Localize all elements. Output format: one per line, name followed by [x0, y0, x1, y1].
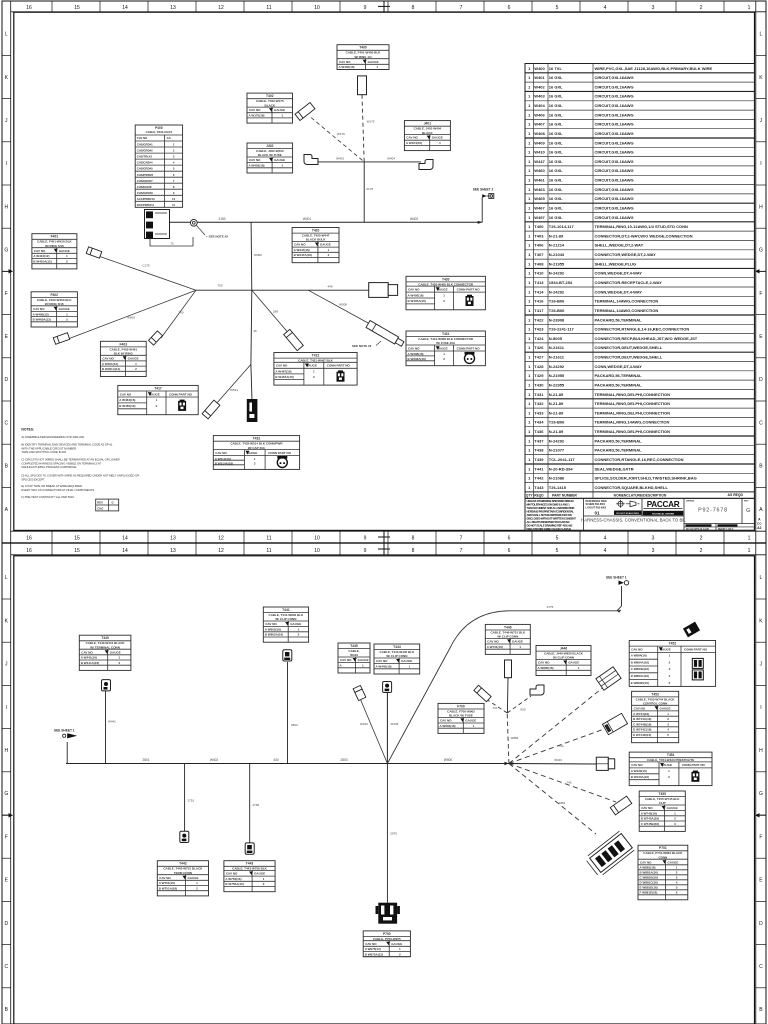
connector table T402 — [247, 93, 293, 123]
svg-text:CAV NO: CAV NO — [33, 307, 45, 311]
svg-text:CAV NO: CAV NO — [406, 136, 418, 140]
svg-text:W900: W900 — [444, 758, 453, 762]
svg-text:CONN PART NO: CONN PART NO — [457, 287, 481, 291]
svg-text:T430: T430 — [442, 277, 450, 281]
dropper wire W300 — [250, 222, 253, 290]
svg-text:L: L — [760, 32, 763, 38]
svg-text:B W884A(16): B W884A(16) — [631, 660, 649, 664]
svg-text:W403: W403 — [534, 94, 545, 99]
connector T405 parallelogram — [86, 247, 102, 258]
dashed branch to T446 — [486, 699, 507, 713]
svg-text:T454: T454 — [667, 753, 675, 757]
svg-text:T26-1014-117: T26-1014-117 — [549, 224, 575, 229]
svg-text:T437: T437 — [534, 438, 544, 443]
svg-text:16 GXL: 16 GXL — [549, 178, 563, 183]
connector table T444 — [374, 644, 420, 674]
svg-text:A W884(16): A W884(16) — [631, 654, 647, 658]
svg-text:3: 3 — [652, 548, 655, 554]
svg-text:CONNECTOR,SQUARE,BLKHD,SHELL: CONNECTOR,SQUARE,BLKHD,SHELL — [595, 485, 669, 490]
svg-text:CIRCUIT,GXL16AWG: CIRCUIT,GXL16AWG — [595, 84, 634, 89]
svg-text:B W461A(14): B W461A(14) — [102, 367, 120, 371]
svg-text:T452: T452 — [669, 642, 677, 646]
svg-text:7: 7 — [460, 536, 463, 542]
svg-text:T432: T432 — [253, 437, 261, 441]
svg-text:A W745(16): A W745(16) — [641, 812, 657, 816]
svg-text:W175: W175 — [367, 120, 375, 124]
svg-text:T417: T417 — [154, 386, 162, 390]
svg-text:CAV NO: CAV NO — [339, 60, 351, 64]
svg-text:F) PRE-TEST CONTINUITY ALL PER: F) PRE-TEST CONTINUITY ALL PER 5010. — [21, 495, 74, 499]
wire to T406 — [68, 290, 196, 339]
svg-text:F: F — [759, 291, 762, 297]
svg-text:CABLE, T430-W405 BLK CONNECTOR: CABLE, T430-W405 BLK CONNECTOR — [418, 282, 474, 286]
svg-text:AS REQD: AS REQD — [728, 493, 744, 497]
svg-text:W463: W463 — [534, 187, 545, 192]
svg-text:J446: J446 — [560, 647, 568, 651]
black box icon near T452 — [683, 622, 700, 638]
svg-text:GAUGE: GAUGE — [368, 60, 379, 64]
svg-text:J401: J401 — [424, 122, 432, 126]
svg-text:B W467A(16): B W467A(16) — [275, 375, 293, 379]
svg-text:REQD: REQD — [534, 494, 544, 498]
svg-text:CONN PART NO: CONN PART NO — [457, 346, 481, 350]
branch T442 drop — [184, 764, 186, 832]
svg-text:14: 14 — [122, 5, 128, 11]
third angle projection symbol — [616, 500, 639, 508]
svg-text:8: 8 — [412, 5, 415, 11]
svg-text:1: 1 — [748, 536, 751, 542]
svg-text:T26-1415: T26-1415 — [549, 485, 567, 490]
svg-text:GAUGE: GAUGE — [391, 942, 402, 946]
svg-text:5: 5 — [556, 548, 559, 554]
svg-text:2: 2 — [700, 548, 703, 554]
svg-text:B W460A(12): B W460A(12) — [33, 318, 51, 322]
svg-text:G: G — [759, 791, 763, 797]
svg-text:1534-BT-254: 1534-BT-254 — [549, 280, 573, 285]
svg-text:5: 5 — [556, 5, 559, 11]
svg-text:16 GXL: 16 GXL — [549, 159, 563, 164]
svg-text:7: 7 — [460, 548, 463, 554]
sheet 2 zone strips — [10, 543, 12, 1024]
connector icon T443 — [245, 843, 254, 854]
svg-text:T407: T407 — [534, 252, 544, 257]
svg-text:CIRCUIT,GXL16AWG: CIRCUIT,GXL16AWG — [595, 206, 634, 211]
svg-text:16 GXL: 16 GXL — [549, 196, 563, 201]
connector table T400 — [337, 45, 389, 70]
sheet 2 zone numbers top — [51, 543, 53, 555]
svg-text:DISCLOSED WITHOUT WRITTEN CONS: DISCLOSED WITHOUT WRITTEN CONSENT — [527, 516, 577, 520]
svg-text:CIRCUIT,GXL16AWG: CIRCUIT,GXL16AWG — [595, 131, 634, 136]
svg-text:440: 440 — [273, 758, 279, 762]
connector table P700 — [363, 931, 410, 957]
svg-text:E W881D(16): E W881D(16) — [640, 886, 658, 890]
dashed wire from fuse — [362, 95, 364, 162]
connector table T443 — [224, 861, 275, 892]
svg-text:TERMINAL,14AWG,CONNECTION: TERMINAL,14AWG,CONNECTION — [595, 299, 659, 304]
svg-text:CONN PART NO: CONN PART NO — [682, 763, 706, 767]
svg-text:CAV NO: CAV NO — [440, 719, 452, 723]
svg-text:C: C — [4, 420, 8, 426]
svg-text:SPLICE,SOLDER,JOINT,SHLD,TWIST: SPLICE,SOLDER,JOINT,SHLD,TWISTED,SHRINK,… — [595, 476, 697, 481]
title block bottom strip — [715, 524, 717, 531]
svg-text:W460: W460 — [534, 168, 545, 173]
svg-text:GAUGE: GAUGE — [59, 249, 70, 253]
svg-text:PART NUMBER: PART NUMBER — [552, 494, 577, 498]
svg-text:13: 13 — [170, 5, 176, 11]
svg-text:T445: T445 — [350, 644, 358, 648]
svg-text:CHG: CHG — [97, 506, 103, 510]
svg-text:4: 4 — [604, 5, 607, 11]
svg-text:T420: T420 — [312, 229, 320, 233]
svg-text:T433: T433 — [534, 410, 544, 415]
svg-text:NOMENCLATURE/DESCRIPTION: NOMENCLATURE/DESCRIPTION — [614, 494, 667, 498]
connector table F402 — [31, 292, 77, 327]
svg-text:2775: 2775 — [547, 605, 554, 609]
svg-text:CONN,WEDGE,DT,4-WAY: CONN,WEDGE,DT,4-WAY — [595, 271, 643, 276]
wire to T407 — [161, 290, 196, 338]
svg-text:DRAWN: DRAWN — [686, 500, 695, 503]
svg-text:W176: W176 — [337, 132, 345, 136]
svg-text:CHS/GRD#9: CHS/GRD#9 — [137, 191, 153, 195]
svg-text:N-21-89: N-21-89 — [549, 429, 564, 434]
svg-text:10: 10 — [172, 197, 176, 201]
svg-text:W445: W445 — [391, 722, 399, 726]
svg-text:F: F — [759, 834, 762, 840]
svg-text:F: F — [5, 834, 8, 840]
svg-text:T441: T441 — [534, 466, 544, 471]
notes block sheet 1 — [21, 428, 139, 499]
connector icon T445 (angled) — [353, 685, 366, 700]
svg-text:16 GXL: 16 GXL — [549, 75, 563, 80]
svg-text:T424: T424 — [534, 336, 544, 341]
top inline fuse F400 — [358, 76, 367, 95]
svg-text:W404: W404 — [534, 103, 545, 108]
svg-text:3: 3 — [652, 5, 655, 11]
svg-text:TERMINAL,RING,10-12AWG,1/4 STU: TERMINAL,RING,10-12AWG,1/4 STUD,STD CONN — [595, 224, 688, 229]
svg-text:2175: 2175 — [366, 187, 373, 191]
svg-text:T434: T434 — [534, 420, 544, 425]
svg-text:GAUGE: GAUGE — [401, 659, 412, 663]
svg-text:A W975(12): A W975(12) — [365, 947, 381, 951]
svg-text:CONNECTOR,RTANGLE,14-16,REC,CO: CONNECTOR,RTANGLE,14-16,REC,CONNECTION — [595, 327, 690, 332]
connector T402 parallelogram — [295, 102, 315, 120]
svg-text:ALL RIGHTS RESERVED PACCAR INC: ALL RIGHTS RESERVED PACCAR INC. — [527, 520, 571, 524]
svg-text:H: H — [759, 748, 763, 754]
svg-text:SHEET 1 OF 2: SHEET 1 OF 2 — [718, 529, 734, 531]
svg-text:F401: F401 — [51, 235, 59, 239]
svg-text:A W461(14): A W461(14) — [102, 362, 118, 366]
connector P700 (black multi-pin) — [376, 903, 400, 924]
svg-text:CAV NO: CAV NO — [634, 706, 646, 710]
splice node C (right star) — [504, 762, 509, 766]
connector T446 — [474, 685, 491, 702]
svg-text:N-21-89: N-21-89 — [549, 410, 564, 415]
svg-text:CAV NO: CAV NO — [159, 876, 171, 880]
sheet 1 outer border — [2, 1, 766, 543]
svg-text:SEE SHEET 1: SEE SHEET 1 — [54, 729, 75, 733]
connector table F401 — [32, 234, 77, 269]
ring terminal T400 on trunk — [190, 219, 197, 226]
svg-text:T426: T426 — [534, 345, 544, 350]
connector table T420 — [292, 228, 339, 263]
svg-text:N-21043: N-21043 — [549, 252, 565, 257]
svg-text:T438: T438 — [534, 448, 544, 453]
svg-text:B W745A(16): B W745A(16) — [641, 817, 659, 821]
svg-text:W884: W884 — [511, 736, 519, 740]
svg-text:745: 745 — [566, 781, 571, 785]
fuse table F700 — [438, 703, 484, 733]
dashed wire to P701 — [509, 764, 596, 835]
svg-text:N-21-89: N-21-89 — [549, 392, 564, 397]
svg-text:15: 15 — [74, 548, 80, 554]
svg-text:F402: F402 — [50, 293, 58, 297]
svg-text:CAV NO: CAV NO — [215, 451, 227, 455]
svg-text:CHS/TRL#3: CHS/TRL#3 — [137, 155, 153, 159]
svg-text:N-22955: N-22955 — [549, 382, 565, 387]
wire trunk sheet 2 — [66, 763, 509, 765]
svg-text:B W756A(16): B W756A(16) — [225, 882, 243, 886]
svg-text:F700: F700 — [457, 704, 465, 708]
svg-text:SHELL,WEDGE,DT,2-WAY: SHELL,WEDGE,DT,2-WAY — [595, 243, 644, 248]
svg-text:16 GXL: 16 GXL — [549, 94, 563, 99]
wire right from node A — [252, 289, 369, 291]
svg-text:GAUGE: GAUGE — [660, 706, 671, 710]
svg-text:T430: T430 — [534, 382, 544, 387]
svg-text:16 GXL: 16 GXL — [549, 206, 563, 211]
sheet 1 center marks — [383, 1, 385, 12]
svg-text:P701: P701 — [659, 846, 667, 850]
svg-text:W514: W514 — [230, 388, 238, 392]
svg-text:T432: T432 — [534, 401, 544, 406]
svg-text:W406: W406 — [534, 112, 545, 117]
svg-text:CIRCUIT,GXL16AWG: CIRCUIT,GXL16AWG — [595, 150, 634, 155]
connector T410 (double rect) — [369, 283, 398, 298]
svg-text:12: 12 — [218, 5, 224, 11]
svg-text:TCL-2041-117: TCL-2041-117 — [549, 457, 576, 462]
svg-text:CIRCUIT,GXL16AWG: CIRCUIT,GXL16AWG — [595, 215, 634, 220]
sheet 1 zone numbers bottom — [51, 531, 53, 543]
inline fuse F701 above Y-split — [505, 660, 512, 678]
svg-text:12: 12 — [218, 548, 224, 554]
svg-text:CAV NO: CAV NO — [102, 356, 114, 360]
svg-text:T417: T417 — [534, 308, 544, 313]
connector table T445 — [338, 643, 370, 673]
svg-text:A W463(16): A W463(16) — [119, 398, 135, 402]
svg-text:16 GXL: 16 GXL — [549, 187, 563, 192]
svg-text:W408: W408 — [534, 131, 545, 136]
svg-text:B W433A(16): B W433A(16) — [631, 775, 649, 779]
svg-text:GAUGE: GAUGE — [254, 872, 265, 876]
svg-text:DO NOT SCALE DRAWING REF 4001-: DO NOT SCALE DRAWING REF 4001-002 — [527, 523, 573, 527]
svg-text:N-21086: N-21086 — [549, 476, 565, 481]
svg-text:W433: W433 — [554, 758, 562, 762]
svg-text:CIRCUIT,GXL16AWG: CIRCUIT,GXL16AWG — [595, 187, 634, 192]
connector table T431 — [406, 331, 485, 366]
svg-text:T400: T400 — [359, 46, 367, 50]
wire trunk W402 (sheet 1 main horizontal) — [170, 221, 482, 223]
svg-text:N-21611: N-21611 — [549, 355, 565, 360]
svg-text:I: I — [6, 161, 7, 167]
vertical wire 2175 — [363, 162, 365, 222]
svg-text:THIS DOCUMENT AND ALL INFORMAT: THIS DOCUMENT AND ALL INFORMATION — [527, 506, 575, 510]
svg-text:D W881C(16): D W881C(16) — [640, 881, 658, 885]
wire list table — [525, 64, 755, 499]
svg-text:A W404(16): A W404(16) — [406, 141, 422, 145]
svg-text:GAUGE: GAUGE — [358, 658, 369, 662]
svg-text:16 GXL: 16 GXL — [549, 103, 563, 108]
svg-text:N-20-RD-394: N-20-RD-394 — [549, 466, 574, 471]
svg-text:W447: W447 — [534, 159, 545, 164]
svg-text:N-21077: N-21077 — [549, 448, 565, 453]
wire list header row — [525, 491, 755, 493]
svg-text:CAV NO: CAV NO — [640, 860, 652, 864]
svg-text:T423: T423 — [534, 327, 544, 332]
connector icon T442 — [180, 831, 189, 842]
svg-text:W308: W308 — [339, 303, 347, 307]
svg-text:W403: W403 — [336, 156, 344, 160]
title block — [525, 498, 755, 530]
svg-text:J402: J402 — [266, 144, 274, 148]
svg-text:1: 1 — [748, 548, 751, 554]
svg-text:HARNESS-CHASSIS, CONVENTIONAL: HARNESS-CHASSIS, CONVENTIONAL BACK TO BK… — [581, 518, 686, 523]
svg-text:CHS/CAB#4: CHS/CAB#4 — [137, 161, 153, 165]
svg-text:REV: REV — [744, 501, 749, 503]
svg-text:16 GXL: 16 GXL — [549, 140, 563, 145]
svg-text:GAUGE: GAUGE — [188, 876, 199, 880]
svg-text:C W881B(16): C W881B(16) — [640, 876, 658, 880]
svg-text:12: 12 — [218, 536, 224, 542]
svg-text:CIRCUIT,GXL16AWG: CIRCUIT,GXL16AWG — [595, 140, 634, 145]
svg-text:CONN PART NO: CONN PART NO — [268, 451, 292, 455]
svg-text:L: L — [5, 32, 8, 38]
svg-text:CONN PART NO: CONN PART NO — [684, 647, 708, 651]
svg-text:CIRCUIT,GXL16AWG: CIRCUIT,GXL16AWG — [595, 122, 634, 127]
svg-text:TAPE AND SPOTTING CODE B-434.: TAPE AND SPOTTING CODE B-434. — [21, 450, 67, 454]
svg-text:G: G — [112, 501, 114, 505]
stem wire from F701 to Y-split — [506, 678, 509, 713]
svg-text:CONNECTOR-RECEPTACLE,2-WAY: CONNECTOR-RECEPTACLE,2-WAY — [595, 280, 663, 285]
svg-text:A W830(16): A W830(16) — [538, 666, 554, 670]
svg-text:W443: W443 — [360, 722, 368, 726]
svg-text:CIRCUIT,GXL16AWG: CIRCUIT,GXL16AWG — [595, 168, 634, 173]
svg-text:TERMINAL,14AWG,CONNECTION: TERMINAL,14AWG,CONNECTION — [595, 308, 659, 313]
sheet 2 inner frame — [14, 556, 755, 1024]
svg-text:P700: P700 — [383, 932, 391, 936]
svg-text:10: 10 — [314, 5, 320, 11]
svg-text:TERMINAL,RING,DELPHI,CONNECTIO: TERMINAL,RING,DELPHI,CONNECTION — [595, 401, 671, 406]
wire to T409 — [252, 290, 294, 339]
svg-text:W300: W300 — [254, 253, 262, 257]
svg-text:CIRCUIT,GXL16AWG: CIRCUIT,GXL16AWG — [595, 196, 634, 201]
connector table T455 — [639, 791, 685, 831]
svg-text:B W465(16): B W465(16) — [119, 404, 135, 408]
branch diagonal to T445 — [361, 700, 388, 764]
svg-text:B W975A(12): B W975A(12) — [365, 952, 383, 956]
svg-text:13: 13 — [170, 548, 176, 554]
connector table T421 — [274, 353, 357, 386]
svg-text:8: 8 — [412, 536, 415, 542]
wire to P401 — [251, 364, 252, 400]
svg-text:13: 13 — [170, 536, 176, 542]
svg-text:PACKARD,56,TERMINAL: PACKARD,56,TERMINAL — [595, 448, 643, 453]
svg-text:C W744B(16): C W744B(16) — [633, 722, 651, 726]
svg-text:T431: T431 — [442, 332, 450, 336]
svg-text:W400: W400 — [534, 66, 545, 71]
connector T449 — [602, 713, 627, 734]
branch T441 — [287, 662, 289, 764]
svg-text:GAUGE: GAUGE — [110, 650, 121, 654]
svg-text:T402: T402 — [266, 94, 274, 98]
svg-text:2803: 2803 — [340, 758, 347, 762]
svg-text:P92-7678: P92-7678 — [698, 508, 728, 514]
connector icon T441 — [283, 650, 292, 661]
svg-text:PACKARD,56,TERMINAL: PACKARD,56,TERMINAL — [595, 317, 643, 322]
svg-text:B W441A(16): B W441A(16) — [81, 661, 99, 665]
svg-text:W407: W407 — [534, 122, 545, 127]
svg-text:15: 15 — [74, 5, 80, 11]
svg-text:B W447A(16): B W447A(16) — [294, 253, 312, 257]
svg-text:N-24292: N-24292 — [549, 364, 565, 369]
svg-text:CAV NO: CAV NO — [34, 249, 46, 253]
svg-text:D W884C(16): D W884C(16) — [631, 674, 649, 678]
svg-text:HEREIN IS PROPRIETARY/CONFIDEN: HEREIN IS PROPRIETARY/CONFIDENTIAL — [527, 509, 575, 513]
svg-text:16 GXL: 16 GXL — [549, 112, 563, 117]
connector table T442 — [157, 861, 208, 896]
svg-text:A W433(16): A W433(16) — [631, 769, 647, 773]
svg-text:TERMINAL,RING,DELPHI,CONNECTIO: TERMINAL,RING,DELPHI,CONNECTION — [595, 392, 671, 397]
svg-text:CONN,WEDGE,DT,4-WAY: CONN,WEDGE,DT,4-WAY — [595, 289, 643, 294]
wire to T405 — [97, 256, 196, 291]
svg-text:F403: F403 — [120, 342, 128, 346]
svg-text:W/ CAP 20A: W/ CAP 20A — [248, 446, 266, 450]
connector table P400 (11-row) — [135, 125, 182, 207]
connector table T440 — [79, 635, 131, 670]
svg-text:CAV NO: CAV NO — [641, 806, 653, 810]
svg-text:W402: W402 — [410, 217, 419, 221]
connector T447 (L-boot) — [530, 685, 544, 695]
svg-text:W441: W441 — [108, 720, 116, 724]
svg-text:2756: 2756 — [253, 803, 260, 807]
svg-text:CAV NO: CAV NO — [487, 640, 499, 644]
svg-text:A2: A2 — [757, 526, 761, 530]
svg-text:16 GXL: 16 GXL — [549, 84, 563, 89]
svg-text:11: 11 — [266, 5, 271, 11]
svg-text:15: 15 — [74, 536, 80, 542]
svg-text:D W744C(16): D W744C(16) — [633, 728, 651, 732]
svg-text:CAV NO: CAV NO — [631, 763, 643, 767]
svg-text:01: 01 — [594, 511, 600, 516]
svg-text:W410: W410 — [534, 150, 545, 155]
svg-text:GA: GA — [167, 136, 171, 140]
svg-text:TERMINAL,RING,DELPHI,CONNECTIO: TERMINAL,RING,DELPHI,CONNECTION — [595, 410, 671, 415]
svg-text:A W441(16): A W441(16) — [81, 656, 97, 660]
svg-text:CIRCUIT,GXL16AWG: CIRCUIT,GXL16AWG — [595, 75, 634, 80]
svg-text:ACC/PWR#10: ACC/PWR#10 — [137, 197, 155, 201]
svg-text:750: 750 — [217, 284, 222, 288]
sheet 2 center marks — [383, 543, 385, 555]
svg-text:2975: 2975 — [390, 832, 397, 836]
svg-text:1: 1 — [748, 5, 751, 11]
svg-text:9: 9 — [364, 5, 367, 11]
svg-text:CONNECTOR,RECP,BULKHEAD,JST,W/: CONNECTOR,RECP,BULKHEAD,JST,W/O WEDGE,JS… — [595, 336, 698, 341]
dashed wire to T451 — [509, 764, 616, 803]
svg-text:T410: T410 — [534, 271, 544, 276]
svg-text:11: 11 — [172, 203, 175, 207]
svg-text:CAV NO: CAV NO — [631, 647, 643, 651]
svg-text:H: H — [4, 748, 8, 754]
svg-text:14: 14 — [122, 536, 128, 542]
svg-text:BAT/PWR#11: BAT/PWR#11 — [137, 203, 155, 207]
